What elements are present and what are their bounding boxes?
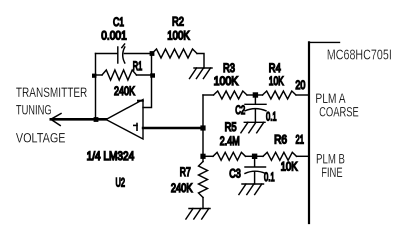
pin 20 (295, 79, 305, 92)
resistor R2 (152, 49, 197, 58)
resistor R6 (255, 152, 309, 160)
value 100K (214, 75, 239, 88)
svg-text:240K: 240K (114, 85, 135, 98)
label 1/4 LM324 (87, 150, 135, 163)
label PLM B (316, 151, 345, 166)
svg-text:0.001: 0.001 (101, 30, 127, 43)
label R3 (223, 62, 235, 75)
label R4 (269, 62, 281, 75)
svg-text:C1: C1 (113, 16, 124, 29)
svg-text:0.1: 0.1 (266, 111, 277, 124)
value 240K (114, 85, 135, 98)
label VOLTAGE (16, 131, 66, 146)
wire noninverting input (143, 127, 203, 129)
value 0.1 (264, 171, 275, 184)
label R7 (180, 166, 191, 179)
label C1 (113, 16, 124, 29)
svg-text:2.4M: 2.4M (220, 135, 240, 148)
wire right feedback rail (143, 54, 152, 108)
label TRANSMITTER (16, 85, 88, 100)
pin minus (138, 100, 143, 102)
svg-text:MC68HC705I: MC68HC705I (327, 47, 392, 64)
wire output (51, 118, 106, 121)
label COARSE (319, 104, 359, 119)
label R2 (172, 16, 184, 29)
label C2 (235, 104, 245, 117)
svg-text:R7: R7 (180, 166, 191, 179)
label MC68HC705 (327, 47, 392, 64)
wire summing rail (202, 95, 204, 156)
svg-text:100K: 100K (214, 75, 239, 88)
svg-text:1/4 LM324: 1/4 LM324 (87, 150, 135, 163)
label TUNING (16, 103, 52, 118)
svg-text:R5: R5 (225, 121, 237, 134)
svg-text:R4: R4 (269, 62, 281, 75)
value 0.001 (101, 30, 127, 43)
value 2.4M (220, 135, 240, 148)
node C1/R2 junction (150, 51, 155, 56)
value 240K (171, 182, 193, 195)
resistor R5 (203, 152, 255, 160)
svg-text:10K: 10K (281, 161, 298, 174)
svg-text:U2: U2 (116, 176, 126, 189)
svg-text:TRANSMITTER: TRANSMITTER (16, 85, 88, 100)
resistor R7 (199, 156, 208, 208)
svg-text:20: 20 (295, 79, 305, 92)
svg-text:R6: R6 (274, 134, 287, 147)
svg-text:C2: C2 (235, 104, 245, 117)
node R1 right junction (150, 73, 155, 77)
svg-text:0.1: 0.1 (264, 171, 275, 184)
value 10K (269, 75, 284, 88)
value 100K (167, 30, 190, 43)
svg-text:R2: R2 (172, 16, 184, 29)
node summing junction (200, 125, 205, 130)
capacitor C3 (245, 156, 266, 184)
ground (R2) (190, 68, 213, 79)
svg-text:R1: R1 (133, 60, 143, 73)
wire left feedback rail (95, 54, 97, 120)
svg-text:FINE: FINE (321, 165, 342, 180)
capacitor C2 (245, 95, 266, 122)
svg-text:100K: 100K (167, 30, 190, 43)
label R6 (274, 134, 287, 147)
svg-text:240K: 240K (171, 182, 193, 195)
svg-text:TUNING: TUNING (16, 103, 52, 118)
resistor R1 (96, 70, 152, 80)
value 10K (281, 161, 298, 174)
value 0.1 (266, 111, 277, 124)
ground (C3) (239, 184, 264, 195)
node output junction (94, 117, 99, 122)
capacitor C1 (118, 44, 125, 63)
arrowhead output (51, 114, 61, 126)
label PLM A (315, 91, 345, 106)
op-amp U2 (106, 100, 143, 140)
ground (R7) (186, 209, 210, 220)
node R5/R6/C3 junction (252, 154, 257, 159)
IC MC68HC705 boundary (309, 42, 340, 223)
label U2 (116, 176, 126, 189)
node R5/R6/C3 row: R5 left junction (200, 154, 205, 159)
svg-text:10K: 10K (269, 75, 284, 88)
pin 1 (134, 124, 137, 131)
svg-text:VOLTAGE: VOLTAGE (16, 131, 66, 146)
label FINE (321, 165, 342, 180)
wire C1 top row (96, 53, 153, 55)
resistor R3 (203, 91, 255, 99)
label R1 (133, 60, 143, 73)
pin 21 (296, 134, 305, 147)
svg-text:C3: C3 (229, 167, 241, 180)
node R3/R4/C2 junction (253, 92, 258, 97)
node R1 left junction (92, 74, 97, 78)
svg-text:COARSE: COARSE (319, 104, 359, 119)
wire R2 to ground (197, 54, 204, 69)
svg-text:R3: R3 (223, 62, 235, 75)
label R5 (225, 121, 237, 134)
ground (C2) (241, 122, 265, 133)
svg-text:21: 21 (296, 134, 305, 147)
label C3 (229, 167, 241, 180)
resistor R4 (255, 91, 308, 99)
